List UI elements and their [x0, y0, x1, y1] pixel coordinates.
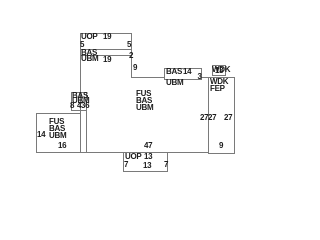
- node C: [208, 77, 235, 154]
- node B: [212, 65, 226, 76]
- label 5: [127, 41, 131, 49]
- label BAS: [166, 68, 182, 76]
- label 16: [58, 142, 66, 150]
- label WDK: [210, 78, 228, 86]
- label 2: [129, 52, 133, 60]
- wire: [80, 33, 132, 34]
- label UBM: [72, 97, 89, 105]
- label 27: [200, 114, 208, 122]
- label UOP: [81, 33, 97, 41]
- label 27: [224, 114, 232, 122]
- label FUS: [136, 90, 151, 98]
- label UBM: [49, 132, 66, 140]
- wire: [80, 49, 132, 50]
- node F: [123, 152, 168, 172]
- label WDK: [212, 66, 230, 74]
- label UBM: [166, 79, 183, 87]
- node E: [71, 92, 87, 111]
- wire: [80, 33, 81, 152]
- label 7: [164, 161, 168, 169]
- label 14: [37, 131, 45, 139]
- label BAS: [81, 49, 97, 57]
- wire: [131, 33, 132, 77]
- label 14: [183, 68, 191, 76]
- label 13: [143, 162, 151, 170]
- label BAS: [72, 92, 88, 100]
- label UOP: [125, 153, 141, 161]
- label 4: [77, 102, 81, 110]
- label FUS: [49, 118, 64, 126]
- label 27: [208, 114, 216, 122]
- label 5: [80, 41, 84, 49]
- label 7: [124, 161, 128, 169]
- wire: [86, 92, 87, 152]
- label FEP: [210, 85, 225, 93]
- label 9: [219, 142, 223, 150]
- label BAS: [49, 125, 65, 133]
- wire: [131, 77, 209, 78]
- wire: [80, 55, 132, 56]
- node D: [36, 113, 81, 153]
- wire: [36, 152, 209, 153]
- label 19: [103, 33, 111, 41]
- label UBM: [81, 55, 98, 63]
- label 47: [144, 142, 152, 150]
- label 13: [144, 153, 152, 161]
- label 3: [198, 73, 202, 81]
- node A: [164, 68, 202, 80]
- label 36: [81, 102, 89, 110]
- label 9: [133, 64, 137, 72]
- label BAS: [136, 97, 152, 105]
- label 19: [103, 56, 111, 64]
- label 8: [70, 102, 74, 110]
- label 13: [215, 67, 223, 75]
- label UBM: [136, 104, 153, 112]
